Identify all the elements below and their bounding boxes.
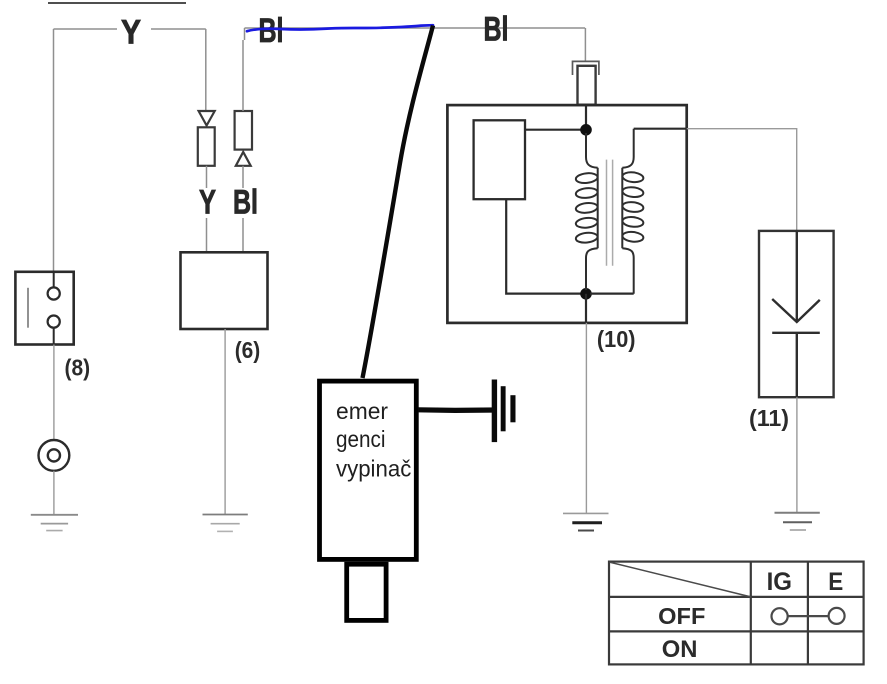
svg-text:OFF: OFF (658, 603, 705, 629)
table header diagonal (610, 562, 751, 597)
emergency switch stub (347, 564, 386, 620)
wire: secondary output inside box (634, 128, 687, 130)
wire: left vertical to magneto (8) (53, 29, 55, 272)
hand-drawn chassis ground bars (492, 380, 516, 443)
wire: fuse to junction (585, 105, 587, 125)
box U6 (CDI unit) (181, 252, 268, 329)
hand-drawn blue wire annotation (247, 25, 433, 31)
wire: vertical into fuse holder (584, 28, 586, 61)
terminal circle bottom in (8) (48, 316, 60, 328)
fuse F1 (578, 66, 596, 105)
line inside (8) (27, 288, 29, 328)
ground under (6) (203, 515, 248, 532)
connector pair: female bullet (Bl lead) (235, 111, 252, 166)
ground under (10) (563, 513, 609, 530)
emergency switch box (320, 381, 417, 559)
wire: pin into (8) top terminal (53, 272, 55, 288)
wire: spark plug to ground (796, 397, 798, 513)
svg-text:(10): (10) (597, 326, 636, 352)
svg-text:ON: ON (662, 636, 698, 663)
wire: internal block to top junction (525, 129, 582, 131)
svg-text:(6): (6) (235, 337, 261, 363)
svg-text:genci: genci (336, 426, 386, 452)
secondary coil L2 (622, 129, 644, 294)
wire: high tension lead to (11) (687, 129, 797, 231)
box U10 (ignition coil unit) (447, 105, 686, 323)
svg-text:Y: Y (199, 184, 216, 222)
svg-text:(11): (11) (749, 405, 789, 431)
fuse holder bracket (573, 61, 599, 75)
switch position table (609, 562, 864, 665)
wire: vertical from Y wire down to connector (205, 29, 207, 111)
wire: into CDI box (6) left pin (206, 218, 208, 252)
primary coil L1 (575, 133, 598, 290)
switch continuity symbol (772, 608, 845, 625)
wire: pin from (8) bottom terminal (53, 328, 55, 345)
wire: internal block bottom leg (506, 199, 582, 293)
wire: bottom junction down out of box (585, 294, 587, 323)
svg-text:(8): (8) (65, 354, 91, 380)
wire: from box (6) to ground (224, 329, 226, 515)
svg-text:Bl: Bl (233, 184, 258, 222)
terminal circle top in (8) (48, 287, 60, 299)
wire: below Bl connector (242, 166, 244, 188)
wire: box (10) to ground (585, 323, 587, 514)
svg-text:Bl: Bl (259, 12, 284, 50)
node: top junction dot (580, 124, 592, 136)
wire: top-left horizontal Y wire (54, 28, 206, 30)
wire: into CDI box (6) right pin (242, 218, 244, 252)
ring terminal (double circle) (39, 440, 70, 471)
internal block in (10) (474, 120, 525, 199)
connector pair: male bullet (Y lead) (198, 111, 215, 166)
ground under (8) (31, 515, 78, 531)
svg-text:IG: IG (767, 568, 792, 596)
svg-text:Bl: Bl (484, 11, 509, 49)
box (8) magneto source coil (15, 272, 73, 345)
scan artifact line top-left (48, 2, 186, 4)
label emergenci vypinac (336, 398, 411, 481)
wire: below Y connector (206, 166, 208, 188)
wire: secondary coil bottom to junction (590, 293, 634, 295)
hand-drawn black lead to emergency switch (363, 26, 434, 379)
wire: top Bl horizontal wire (245, 28, 586, 40)
wire: ring terminal to ground (53, 471, 55, 515)
spark plug electrode (772, 231, 820, 397)
wire: from top Bl wire to female bullet (242, 40, 244, 111)
ground under (11) (775, 513, 820, 530)
wire: from (8) down to ring terminal (53, 345, 55, 441)
box (11) spark plug (759, 231, 834, 397)
node: bottom junction dot (580, 288, 592, 300)
svg-text:E: E (828, 568, 843, 596)
svg-text:vypinač: vypinač (336, 455, 411, 481)
svg-text:Y: Y (121, 14, 141, 52)
svg-text:emer: emer (336, 398, 388, 424)
hand-drawn wire to chassis ground (418, 407, 496, 413)
transformer core (607, 160, 613, 266)
